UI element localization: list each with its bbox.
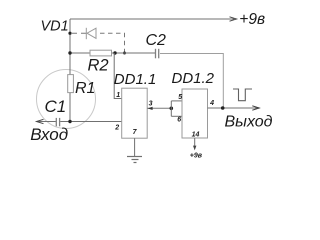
svg-text:6: 6 bbox=[177, 116, 181, 123]
svg-text:2: 2 bbox=[114, 124, 119, 131]
resistor R2 bbox=[90, 50, 112, 56]
svg-text:Выход: Выход bbox=[225, 113, 273, 130]
diode VD1 bbox=[86, 28, 96, 39]
node dot R2 left bbox=[68, 51, 71, 54]
svg-text:DD1.2: DD1.2 bbox=[172, 70, 215, 87]
arrow input bbox=[37, 119, 44, 123]
capacitor C2 bbox=[155, 49, 157, 59]
svg-text:DD1.1: DD1.1 bbox=[114, 71, 157, 88]
arrow to +9v bbox=[230, 17, 237, 21]
wire top +9V rail bbox=[70, 18, 234, 20]
svg-text:VD1: VD1 bbox=[41, 19, 69, 35]
capacitor C1 bbox=[55, 118, 57, 126]
pulse waveform symbol bbox=[233, 89, 252, 101]
svg-text:1: 1 bbox=[116, 92, 120, 99]
wire left vertical bbox=[69, 19, 71, 122]
node dot output bbox=[221, 106, 225, 110]
svg-text:+9в: +9в bbox=[190, 152, 203, 159]
arrow at pin3 bbox=[148, 107, 153, 110]
wire diode anode (dashed) bbox=[72, 32, 86, 34]
wire pin1 branch bbox=[114, 53, 122, 99]
ic DD1.1 bbox=[122, 88, 148, 138]
node dot pins 5-6 bbox=[170, 107, 174, 111]
ic DD1.2 bbox=[182, 89, 208, 138]
wire diode cathode to R2 node (dashed) bbox=[97, 33, 125, 52]
wire pin3 to junction bbox=[147, 107, 171, 109]
svg-text:C2: C2 bbox=[146, 32, 167, 49]
resistor R1 bbox=[68, 75, 74, 93]
svg-text:+9в: +9в bbox=[239, 11, 265, 28]
wire R2 row bbox=[70, 52, 90, 54]
wire output bbox=[208, 107, 257, 109]
wire pin7 to ground bbox=[134, 138, 136, 156]
svg-text:R2: R2 bbox=[88, 56, 109, 74]
pickup circle (sensor outline) bbox=[37, 70, 96, 129]
wire input bbox=[37, 121, 56, 123]
ground bbox=[127, 157, 142, 163]
arrow output bbox=[252, 106, 259, 110]
svg-text:Вход: Вход bbox=[30, 125, 68, 144]
svg-text:5: 5 bbox=[178, 94, 182, 101]
svg-text:R1: R1 bbox=[75, 80, 95, 97]
node dot diode row bbox=[68, 32, 71, 35]
wire C2 to output node (grey) bbox=[160, 54, 223, 109]
wire pin14 bbox=[194, 138, 196, 147]
svg-text:3: 3 bbox=[149, 100, 153, 107]
node dot dashed return bbox=[123, 52, 126, 55]
node dot pin1 branch bbox=[113, 51, 116, 54]
svg-text:14: 14 bbox=[192, 131, 200, 138]
node dot input bbox=[68, 120, 71, 123]
svg-text:C1: C1 bbox=[45, 97, 67, 116]
svg-text:4: 4 bbox=[209, 100, 214, 107]
wire to pin5 and pin6 bbox=[170, 101, 172, 116]
arrow pin14 down bbox=[193, 146, 196, 151]
